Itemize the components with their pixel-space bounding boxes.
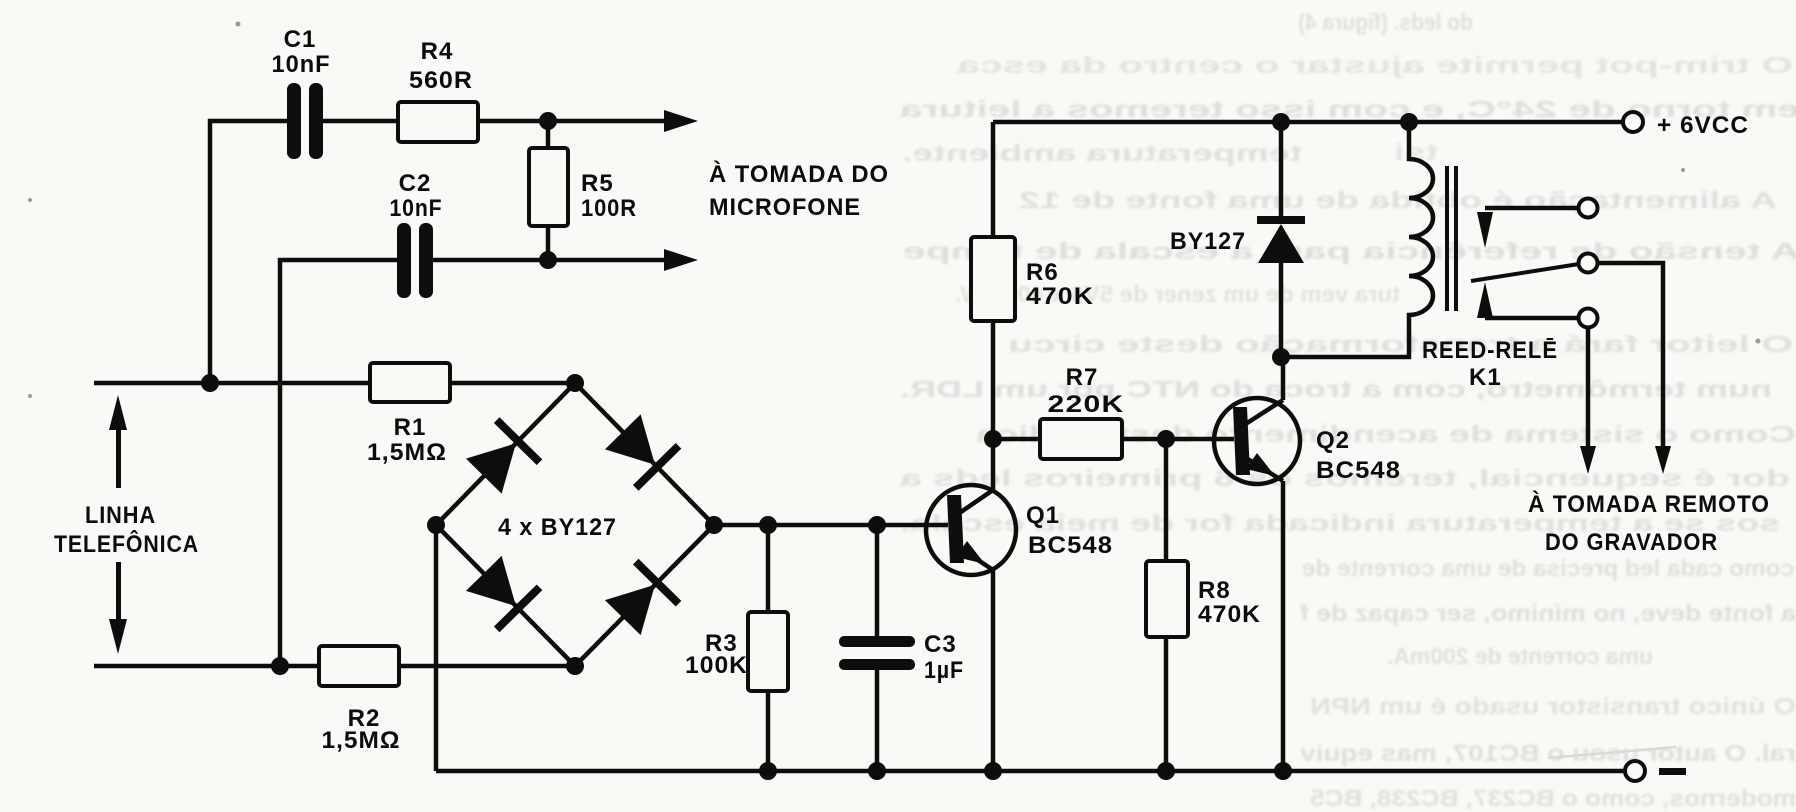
svg-text:uma corrente de 200mA.: uma corrente de 200mA. bbox=[1387, 643, 1653, 669]
resistor R7 body bbox=[1040, 419, 1122, 459]
arrow to microphone jack line 2 bbox=[664, 249, 698, 271]
svg-text:LINHA: LINHA bbox=[85, 502, 156, 529]
diode D4 bridge bottom-right bbox=[601, 559, 681, 639]
wire left vertical from C1 line down to telephone line bbox=[210, 121, 287, 383]
svg-text:À TOMADA REMOTO: À TOMADA REMOTO bbox=[1528, 490, 1770, 518]
resistor R5 body bbox=[529, 148, 568, 226]
svg-text:O leitor fará a transformação: O leitor fará a transformação deste circ… bbox=[1008, 331, 1793, 357]
capacitor C1 plates bbox=[287, 83, 323, 159]
faint scratch bbox=[1548, 747, 1676, 758]
resistor R6 body bbox=[971, 237, 1015, 321]
GHOST-TEXT-BLOCK bbox=[900, 9, 1796, 811]
svg-text:470K: 470K bbox=[1198, 601, 1261, 628]
wire bridge left node down to ground rail bbox=[434, 525, 439, 771]
svg-text:K1: K1 bbox=[1469, 364, 1502, 391]
svg-text:R5: R5 bbox=[581, 170, 614, 197]
svg-text:num termômetro, com a troca do: num termômetro, com a troca do NTC por u… bbox=[900, 376, 1772, 402]
resistor R4 body bbox=[398, 102, 478, 142]
wire R3 bottom stub bbox=[766, 691, 771, 771]
svg-text:470K: 470K bbox=[1026, 283, 1094, 310]
svg-text:C2: C2 bbox=[399, 170, 432, 197]
resistor R3 body bbox=[748, 612, 788, 691]
svg-text:DO GRAVADOR: DO GRAVADOR bbox=[1545, 529, 1718, 556]
svg-text:BY127: BY127 bbox=[1170, 228, 1246, 255]
wire bridge right node to Q1 base bbox=[714, 523, 948, 528]
svg-text:O trim-pot permite ajustar o c: O trim-pot permite ajustar o centro da e… bbox=[957, 52, 1793, 78]
svg-text:R6: R6 bbox=[1026, 259, 1059, 286]
reed switch bottom contact line with up arrow bbox=[1477, 282, 1578, 318]
svg-text:À TOMADA DO: À TOMADA DO bbox=[709, 160, 889, 188]
reed switch contact terminal bottom bbox=[1579, 309, 1598, 328]
svg-text:BC548: BC548 bbox=[1316, 457, 1401, 484]
reed switch top contact line with down arrow bbox=[1477, 208, 1578, 248]
wire R8 top stub bbox=[1164, 439, 1169, 561]
svg-text:ral. O autor usou o BC107, mas: ral. O autor usou o BC107, mas equiv bbox=[1300, 740, 1796, 766]
wire Q1 collector up to R7 node bbox=[991, 439, 996, 490]
wire C2 to mic arrow 2 bbox=[433, 258, 672, 263]
svg-text:4 x BY127: 4 x BY127 bbox=[498, 514, 617, 541]
reed switch contact terminal top bbox=[1579, 199, 1598, 218]
diode D3 bridge bottom-left bbox=[462, 552, 542, 632]
svg-text:tura vem de um zener de 5V6 x: tura vem de um zener de 5V6 x 400mW. bbox=[955, 281, 1400, 307]
arrow to recorder left bbox=[1580, 446, 1596, 474]
svg-text:R1: R1 bbox=[394, 414, 427, 441]
wire BY127 bottom stub to node bbox=[1279, 263, 1284, 357]
SCHEMATIC-BLOCK bbox=[94, 121, 1625, 771]
wire Q1 emitter down to ground rail bbox=[991, 570, 996, 771]
wire top telephone line to R1 bbox=[94, 381, 370, 386]
svg-text:a fonte deve, no mínimo, ser c: a fonte deve, no mínimo, ser capaz de f bbox=[1300, 600, 1796, 626]
svg-text:+ 6VCC: + 6VCC bbox=[1657, 112, 1749, 139]
wire +6V supply rail bbox=[993, 120, 1623, 125]
wire ground rail bbox=[436, 769, 1625, 774]
svg-text:BC548: BC548 bbox=[1028, 532, 1113, 559]
arrow to microphone jack line 1 bbox=[664, 110, 698, 132]
svg-text:R8: R8 bbox=[1198, 577, 1231, 604]
wire BY127 top stub bbox=[1279, 122, 1284, 217]
resistor R8 body bbox=[1146, 561, 1188, 637]
inductor relay coil K1 winding bbox=[1281, 122, 1433, 357]
svg-text:como cada led precisa de uma c: como cada led precisa de uma corrente de bbox=[1302, 555, 1794, 581]
svg-text:10nF: 10nF bbox=[272, 51, 331, 78]
wire bottom contact to recorder arrow bbox=[1586, 328, 1591, 446]
wire C1 to R4 bbox=[323, 119, 398, 124]
diode D2 bridge top-right bbox=[601, 411, 681, 491]
terminal minus bbox=[1625, 761, 1645, 781]
wire R6 top to supply rail bbox=[991, 122, 996, 237]
svg-text:R4: R4 bbox=[421, 38, 454, 65]
wire R8 bottom stub bbox=[1164, 637, 1169, 771]
wire R7 left stub bbox=[993, 437, 1040, 442]
svg-text:MICROFONE: MICROFONE bbox=[709, 194, 861, 221]
terminal +6VCC bbox=[1623, 112, 1643, 132]
svg-text:C1: C1 bbox=[284, 26, 317, 53]
svg-text:1µF: 1µF bbox=[924, 657, 964, 684]
svg-text:Q2: Q2 bbox=[1316, 427, 1350, 454]
svg-text:TELEFÔNICA: TELEFÔNICA bbox=[54, 530, 199, 558]
diode D1 bridge top-left bbox=[462, 417, 542, 497]
diode BY127 bbox=[1257, 216, 1305, 263]
wire R1 to bridge top node bbox=[450, 381, 575, 386]
wire C2 vertical down to bottom telephone wire bbox=[280, 260, 397, 666]
minus sign bbox=[1659, 768, 1686, 775]
svg-text:modernos, como o BC237, BC238,: modernos, como o BC237, BC238, BC5 bbox=[1310, 785, 1796, 811]
wire R3 top stub bbox=[766, 525, 771, 612]
svg-text:10nF: 10nF bbox=[390, 195, 443, 222]
svg-text:1,5MΩ: 1,5MΩ bbox=[322, 727, 401, 754]
svg-text:220K: 220K bbox=[1048, 391, 1125, 418]
wire R7 node up to R6 bbox=[991, 321, 996, 439]
transistor Q2 bbox=[1214, 398, 1300, 484]
wire C3 bottom stub bbox=[875, 669, 880, 771]
svg-text:Q1: Q1 bbox=[1026, 502, 1060, 529]
wire R7 to Q2 base bbox=[1122, 437, 1234, 442]
svg-text:C3: C3 bbox=[924, 631, 957, 658]
svg-text:temperatura ambiente.: temperatura ambiente. bbox=[902, 140, 1302, 166]
linha telefonica double arrow bbox=[109, 395, 127, 654]
svg-text:REED-RELĒ: REED-RELĒ bbox=[1422, 337, 1558, 364]
reed switch contact terminal middle bbox=[1579, 254, 1598, 273]
wire C3 top stub bbox=[875, 525, 880, 637]
svg-text:A alimentação é obtida de uma: A alimentação é obtida de uma fonte de 1… bbox=[1019, 187, 1777, 213]
svg-text:100R: 100R bbox=[581, 195, 637, 222]
svg-text:100K: 100K bbox=[685, 652, 748, 679]
svg-text:560R: 560R bbox=[409, 67, 473, 94]
wire R4 to mic arrow 1 bbox=[478, 119, 672, 124]
wire middle contact to recorder arrow bbox=[1597, 263, 1663, 446]
capacitor C2 plates bbox=[397, 223, 433, 298]
transistor Q1 bbox=[926, 485, 1016, 575]
relay core lines bbox=[1447, 166, 1456, 311]
reed switch lever bbox=[1471, 264, 1579, 281]
svg-text:R7: R7 bbox=[1066, 364, 1099, 391]
svg-text:O único transistor usado é um: O único transistor usado é um NPN bbox=[1310, 693, 1796, 719]
resistor R2 body bbox=[319, 646, 399, 686]
paper specks bbox=[28, 22, 1761, 399]
wire bottom telephone line to R2 bbox=[94, 664, 319, 669]
svg-text:1,5MΩ: 1,5MΩ bbox=[367, 439, 447, 466]
wire R5 bottom stub bbox=[546, 226, 551, 260]
wire Q2 emitter down to ground rail bbox=[1281, 481, 1286, 771]
wire R2 to bridge bottom node bbox=[399, 664, 575, 669]
capacitor C3 plates bbox=[839, 636, 915, 670]
resistor R1 body bbox=[370, 363, 450, 402]
wire R5 top stub bbox=[546, 121, 551, 148]
wire bridge diamond edges bbox=[436, 383, 714, 666]
svg-text:do leds. (figura 4): do leds. (figura 4) bbox=[1298, 9, 1473, 35]
wire Q2 collector up to diode node bbox=[1281, 357, 1286, 400]
arrow to recorder right bbox=[1655, 446, 1671, 474]
